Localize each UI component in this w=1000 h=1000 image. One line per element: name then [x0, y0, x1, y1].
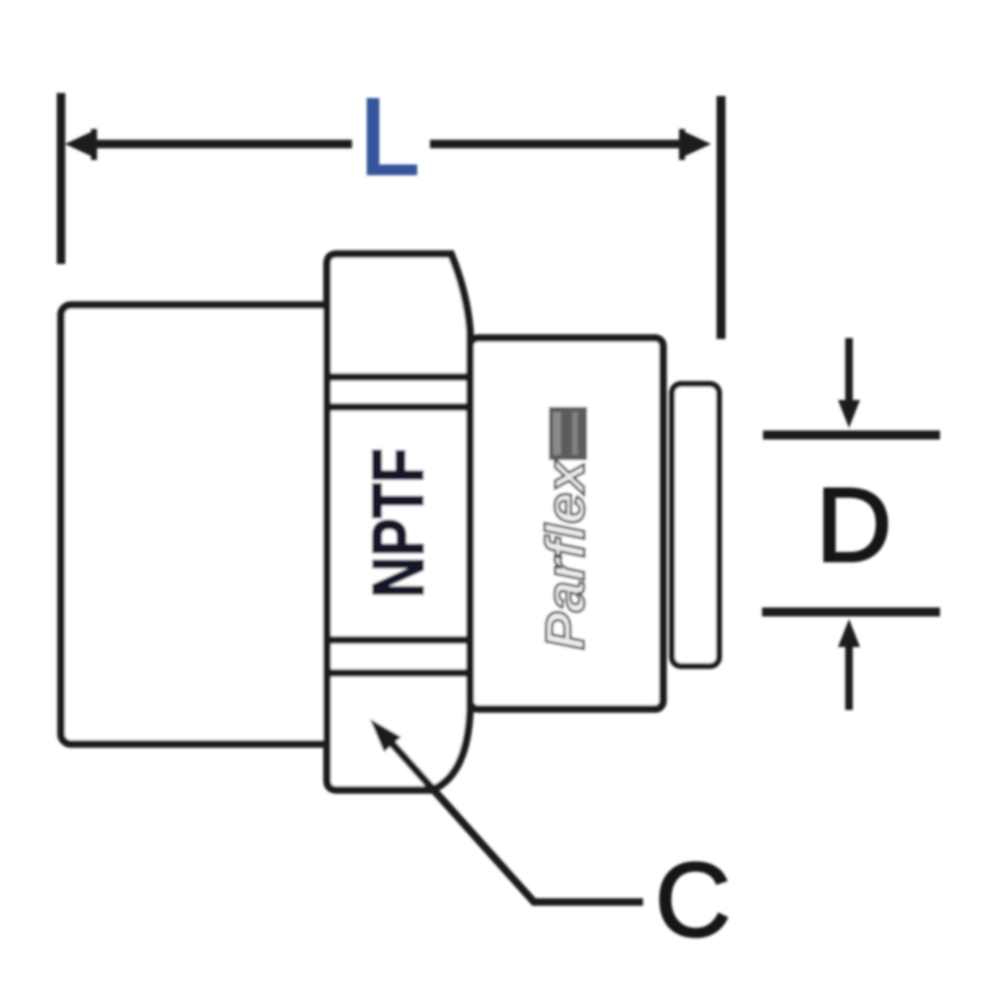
D lower arrowhead [838, 619, 860, 647]
D dimension lower line [762, 608, 940, 617]
hex flat line upper 1 [327, 373, 470, 381]
svg-text:C: C [655, 842, 731, 959]
dimension arrow right [685, 132, 711, 156]
leader line C shaft [379, 729, 643, 902]
hex flat line lower 2 [327, 669, 469, 677]
svg-text:L: L [359, 76, 420, 198]
fitting body (Parflex section) [470, 338, 663, 709]
dimension arrow left [65, 132, 91, 156]
right extension line [717, 96, 726, 339]
left extension line [57, 93, 66, 264]
svg-text:NPTF: NPTF [359, 448, 439, 598]
svg-text:D: D [816, 467, 892, 584]
D dimension upper line [763, 431, 940, 440]
svg-text:Parflex: Parflex [534, 459, 596, 650]
D upper arrowhead [838, 400, 860, 428]
dimension line L right segment [430, 140, 686, 149]
dimension line L left segment [88, 140, 352, 149]
end cap (pilot collar) [672, 384, 719, 666]
hex flat line upper 2 [327, 403, 469, 411]
D upper arrow shaft [845, 338, 853, 403]
Parflex logo block [549, 407, 587, 460]
hex nut outline [327, 254, 470, 790]
hex flat line lower 1 [327, 636, 470, 644]
leader arrowhead [370, 719, 401, 752]
D lower arrow shaft [845, 645, 853, 710]
pipe body (left tube section) [61, 305, 336, 744]
